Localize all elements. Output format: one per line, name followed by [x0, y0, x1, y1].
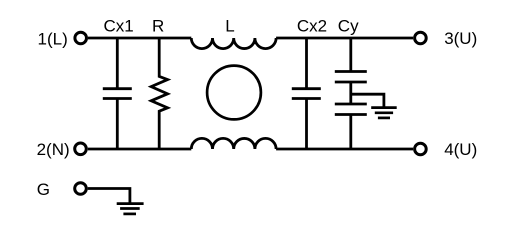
svg-text:4(U): 4(U) [444, 140, 477, 159]
terminal 4(U) [415, 143, 427, 155]
terminal 2(N) [75, 143, 87, 155]
terminal 3(U) [415, 32, 427, 44]
core circle [207, 66, 261, 120]
svg-text:3(U): 3(U) [444, 29, 477, 48]
svg-text:Cy: Cy [338, 16, 359, 35]
svg-text:2(N): 2(N) [37, 140, 70, 159]
wire bottom rail right [276, 148, 413, 151]
svg-text:Cx1: Cx1 [104, 16, 134, 35]
svg-text:R: R [152, 16, 164, 35]
resistor R [151, 38, 167, 149]
wire Cy midpoint stub [349, 82, 352, 104]
ground at Cy [371, 108, 397, 118]
capacitor Cy lower [335, 104, 367, 149]
wire G to ground [88, 189, 130, 204]
svg-text:1(L): 1(L) [38, 30, 68, 49]
svg-text:Cx2: Cx2 [297, 16, 327, 35]
capacitor Cx1 [103, 38, 132, 149]
terminal G [75, 183, 87, 195]
inductor L bottom winding [191, 138, 276, 149]
ground at G [117, 204, 144, 214]
wire bottom rail left [88, 148, 192, 151]
inductor L top winding [191, 38, 276, 49]
svg-text:L: L [225, 16, 234, 35]
svg-text:G: G [37, 180, 50, 199]
capacitor Cx2 [292, 38, 321, 149]
wire Cy tap to ground [351, 94, 384, 107]
wire top rail right [276, 37, 413, 40]
wire top rail left [88, 37, 191, 40]
capacitor Cy upper [335, 38, 367, 82]
terminal 1(L) [75, 32, 87, 44]
